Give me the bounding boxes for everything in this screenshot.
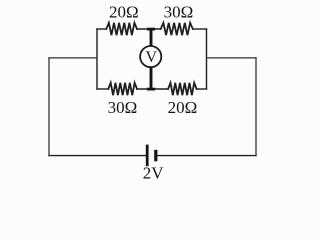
wire top branch left stub (97, 28, 106, 30)
wire bottom branch right stub (197, 88, 207, 90)
wire bottom right from battery (157, 155, 256, 157)
voltmeter V (galvanometer circle) (140, 46, 161, 67)
battery 2V positive plate (long) (146, 145, 149, 167)
wire left horizontal from bridge (49, 57, 97, 59)
svg-text:2V: 2V (143, 163, 165, 182)
svg-text:30Ω: 30Ω (164, 3, 194, 22)
wire bridge right vertical (206, 29, 208, 89)
resistor 20ohm top-left zigzag (106, 23, 137, 35)
svg-text:V: V (146, 49, 158, 66)
resistor 30ohm bottom-left zigzag (108, 83, 137, 95)
svg-text:30Ω: 30Ω (108, 98, 138, 117)
wire outer left vertical (48, 58, 50, 156)
wire bottom left to battery (49, 155, 146, 157)
battery 2V negative plate (short) (154, 150, 157, 162)
resistor 30ohm top-right zigzag (161, 23, 193, 35)
wire bottom branch middle segment (137, 88, 168, 90)
node junction bottom (middle of bottom branch) (147, 88, 155, 91)
svg-text:20Ω: 20Ω (168, 98, 198, 117)
wire voltmeter branch upper (150, 29, 153, 47)
wire bottom branch left stub (97, 88, 108, 90)
wire right horizontal from bridge (207, 57, 257, 59)
wire top branch middle segment (137, 28, 161, 30)
wire voltmeter branch lower (150, 67, 153, 89)
svg-text:20Ω: 20Ω (109, 3, 139, 22)
wire bridge left vertical (96, 29, 98, 89)
resistor 20ohm bottom-right zigzag (168, 83, 197, 95)
wire top branch right stub (193, 28, 207, 30)
node junction top (middle of top branch) (147, 28, 155, 31)
wire outer right vertical (255, 58, 257, 156)
